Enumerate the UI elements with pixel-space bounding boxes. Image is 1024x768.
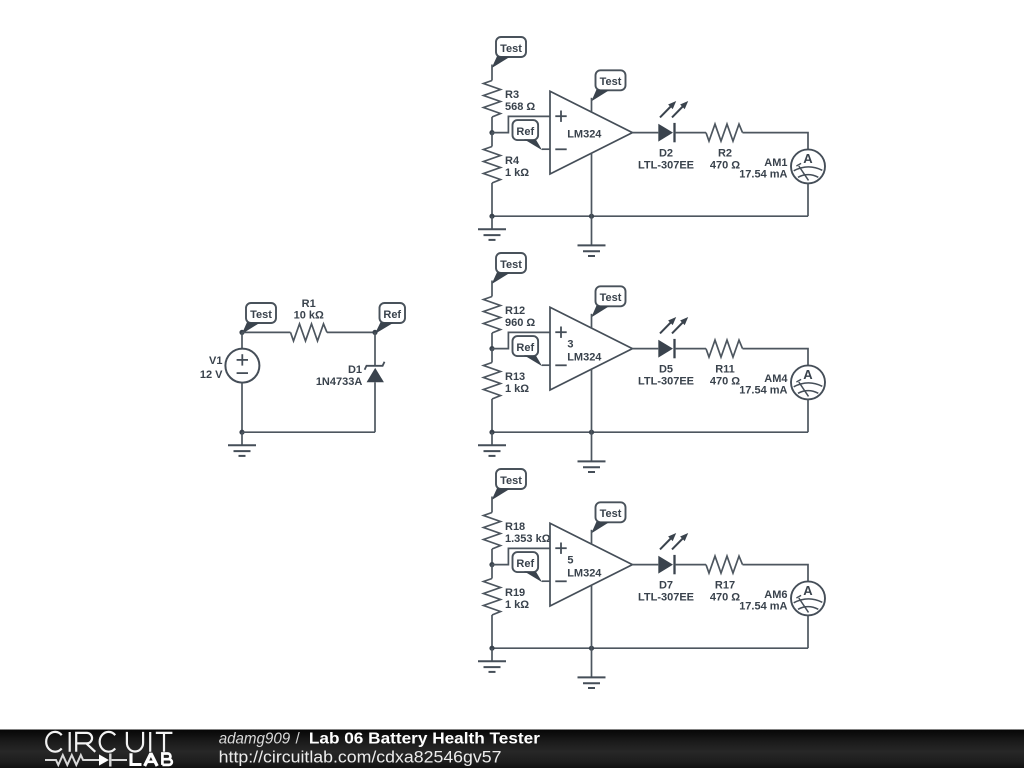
svg-text:Ref: Ref	[516, 342, 534, 354]
svg-text:V1: V1	[209, 355, 222, 367]
svg-text:568 Ω: 568 Ω	[505, 101, 535, 113]
logo text CIRCUIT	[46, 732, 172, 752]
svg-text:LTL-307EE: LTL-307EE	[638, 160, 694, 172]
resistor R11	[706, 340, 743, 357]
wire	[591, 314, 593, 329]
svg-text:R12: R12	[505, 305, 525, 317]
bottom rail wire (0V net)	[492, 215, 808, 217]
svg-text:D5: D5	[659, 363, 673, 375]
svg-text:http://circuitlab.com/cdxa8254: http://circuitlab.com/cdxa82546gv57	[219, 748, 502, 766]
wire to op-amp + input	[492, 116, 550, 132]
svg-text:Ref: Ref	[383, 309, 401, 321]
wire	[807, 183, 809, 216]
ground	[578, 244, 606, 246]
wire	[491, 117, 493, 133]
resistor R19	[491, 565, 493, 579]
wire	[591, 648, 593, 677]
node junction	[489, 130, 494, 135]
wire	[807, 615, 809, 648]
bottom rail wire (0V net)	[492, 647, 808, 649]
resistor R17	[706, 556, 743, 573]
svg-text:AM6: AM6	[764, 589, 787, 601]
svg-text:17.54 mA: 17.54 mA	[739, 168, 787, 180]
voltage source V1	[241, 332, 243, 348]
zener diode D1 1N4733A	[374, 332, 376, 365]
svg-text:12 V: 12 V	[200, 369, 223, 381]
node flag Test (top of divider, block 3)	[496, 469, 526, 489]
node flag Ref	[380, 303, 406, 323]
svg-text:AM1: AM1	[764, 157, 787, 169]
op-amp LM324	[550, 307, 632, 390]
svg-text:LTL-307EE: LTL-307EE	[638, 376, 694, 388]
bottom rail wire (0V net)	[492, 431, 808, 433]
svg-text:1 kΩ: 1 kΩ	[505, 599, 529, 611]
svg-text:R18: R18	[505, 521, 525, 533]
wire	[327, 331, 375, 333]
svg-text:470 Ω: 470 Ω	[710, 160, 740, 172]
wire	[591, 216, 593, 245]
svg-text:Test: Test	[500, 259, 522, 271]
ground	[491, 432, 493, 445]
svg-text:A: A	[803, 367, 813, 382]
wire	[491, 65, 493, 81]
wire	[241, 383, 243, 433]
wire	[591, 98, 593, 113]
op-amp LM324	[550, 91, 632, 174]
svg-text:R3: R3	[505, 89, 519, 101]
svg-text:Test: Test	[500, 475, 522, 487]
node junction	[589, 646, 594, 651]
svg-text:470 Ω: 470 Ω	[710, 592, 740, 604]
wire (op-amp V- pin to rail)	[591, 585, 593, 648]
svg-text:5: 5	[567, 554, 573, 566]
wire	[743, 349, 809, 366]
svg-text:R1: R1	[302, 298, 316, 310]
svg-text:R19: R19	[505, 587, 525, 599]
svg-text:D1: D1	[348, 364, 362, 376]
svg-text:Test: Test	[600, 508, 622, 520]
wire	[491, 399, 493, 432]
op-amp LM324	[550, 523, 632, 606]
LED D2	[658, 124, 673, 142]
svg-text:Lab 06 Battery Health Tester: Lab 06 Battery Health Tester	[309, 731, 540, 748]
svg-text:1.353 kΩ: 1.353 kΩ	[505, 533, 551, 545]
node junction	[239, 330, 244, 335]
svg-text:AM4: AM4	[764, 373, 788, 385]
svg-text:Ref: Ref	[516, 126, 534, 138]
svg-text:R13: R13	[505, 371, 525, 383]
wire	[491, 281, 493, 297]
wire	[542, 364, 550, 366]
node junction	[589, 214, 594, 219]
svg-text:LM324: LM324	[567, 351, 602, 363]
resistor R18	[484, 513, 501, 550]
node flag Test (V1 output)	[246, 303, 276, 323]
LED D7	[658, 556, 673, 574]
wire	[743, 133, 809, 150]
node junction	[489, 346, 494, 351]
wire	[491, 615, 493, 648]
node junction	[489, 646, 494, 651]
svg-text:R4: R4	[505, 155, 520, 167]
node flag Ref (at - input)	[513, 336, 539, 356]
ground	[578, 460, 606, 462]
node flag Test (op-amp V+ pin)	[596, 502, 626, 522]
resistor R3	[484, 81, 501, 118]
wire	[542, 148, 550, 150]
ground	[491, 216, 493, 229]
node junction	[489, 430, 494, 435]
wire	[591, 432, 593, 461]
svg-text:1N4733A: 1N4733A	[316, 376, 363, 388]
svg-text:17.54 mA: 17.54 mA	[739, 600, 787, 612]
svg-text:LM324: LM324	[567, 567, 602, 579]
node flag Ref (at - input)	[513, 552, 539, 572]
svg-text:D2: D2	[659, 147, 673, 159]
wire	[675, 564, 707, 566]
wire	[491, 183, 493, 216]
ammeter AM1	[791, 149, 825, 183]
bottom rail wire	[242, 431, 375, 433]
ammeter AM4	[791, 365, 825, 399]
resistor R13	[491, 349, 493, 363]
logo text LAB	[131, 753, 172, 766]
svg-text:Test: Test	[600, 292, 622, 304]
wire	[675, 348, 707, 350]
wire (op-amp output)	[632, 564, 658, 566]
wire to op-amp + input	[492, 548, 550, 564]
svg-text:A: A	[803, 583, 813, 598]
node junction	[489, 214, 494, 219]
svg-text:R11: R11	[715, 363, 735, 375]
wire	[807, 399, 809, 432]
resistor R2	[706, 124, 743, 141]
node junction	[239, 430, 244, 435]
svg-text:LM324: LM324	[567, 128, 602, 140]
resistor R4	[491, 133, 493, 147]
svg-text:Ref: Ref	[516, 558, 534, 570]
svg-text:1 kΩ: 1 kΩ	[505, 167, 529, 179]
svg-text:adamg909: adamg909	[219, 731, 291, 748]
wire (op-amp output)	[632, 348, 658, 350]
node flag Test (op-amp V+ pin)	[596, 70, 626, 90]
svg-text:D7: D7	[659, 579, 673, 591]
node junction	[372, 330, 377, 335]
wire	[542, 580, 550, 582]
wire	[491, 497, 493, 513]
svg-text:3: 3	[567, 338, 573, 350]
svg-text:10 kΩ: 10 kΩ	[294, 310, 324, 322]
ground	[491, 648, 493, 661]
wire	[591, 530, 593, 545]
node flag Ref (at - input)	[513, 120, 539, 140]
resistor R12	[484, 297, 501, 334]
svg-text:R2: R2	[718, 147, 732, 159]
svg-text:1 kΩ: 1 kΩ	[505, 383, 529, 395]
wire	[675, 132, 707, 134]
wire to op-amp + input	[492, 332, 550, 348]
svg-text:17.54 mA: 17.54 mA	[739, 384, 787, 396]
resistor R1	[291, 324, 328, 341]
node junction	[589, 430, 594, 435]
svg-text:LTL-307EE: LTL-307EE	[638, 592, 694, 604]
ammeter AM6	[791, 581, 825, 615]
node junction	[489, 562, 494, 567]
svg-text:470 Ω: 470 Ω	[710, 376, 740, 388]
logo resistor-diode glyph	[45, 754, 127, 767]
wire (op-amp V- pin to rail)	[591, 369, 593, 432]
ground	[578, 676, 606, 678]
svg-text:A: A	[803, 151, 813, 166]
node flag Test (top of divider, block 1)	[496, 37, 526, 57]
node flag Test (top of divider, block 2)	[496, 253, 526, 273]
svg-text:R17: R17	[715, 579, 735, 591]
node flag Test (op-amp V+ pin)	[596, 286, 626, 306]
wire	[491, 333, 493, 349]
wire (op-amp V- pin to rail)	[591, 153, 593, 216]
wire	[743, 565, 809, 582]
wire	[491, 549, 493, 565]
svg-text:Test: Test	[600, 76, 622, 88]
svg-text:960 Ω: 960 Ω	[505, 317, 535, 329]
ground	[241, 432, 243, 445]
LED D5	[658, 340, 673, 358]
wire (op-amp output)	[632, 132, 658, 134]
footer bar	[0, 730, 1024, 768]
svg-text:Test: Test	[500, 43, 522, 55]
svg-text:Test: Test	[250, 309, 272, 321]
wire	[242, 331, 291, 333]
